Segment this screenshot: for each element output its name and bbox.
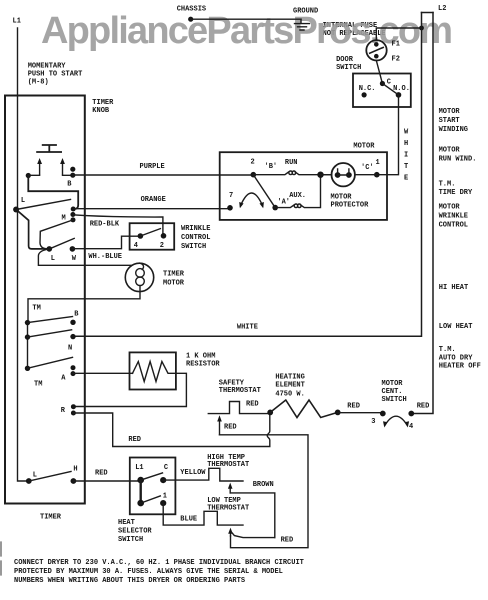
wire TM contact bus xyxy=(27,323,29,369)
svg-text:L1: L1 xyxy=(13,17,21,25)
push-to-start left actuator arrow xyxy=(39,163,41,175)
svg-text:TM: TM xyxy=(34,381,42,389)
svg-text:WH.-BLUE: WH.-BLUE xyxy=(88,253,122,261)
push-to-start contact stubs xyxy=(28,174,73,176)
cent switch terminal 3 dot xyxy=(380,411,386,417)
svg-text:CONTROL: CONTROL xyxy=(439,221,468,229)
wire L junction down to L contact xyxy=(16,210,49,249)
terminal R double dots xyxy=(71,404,76,409)
svg-text:C: C xyxy=(387,79,391,87)
wire red H to heat selector L1 xyxy=(73,480,140,482)
wire brown high temp arrow to low temp node xyxy=(230,493,275,538)
svg-text:MOTOR: MOTOR xyxy=(439,204,461,212)
svg-text:RUN: RUN xyxy=(285,159,298,167)
svg-text:2: 2 xyxy=(251,159,255,167)
svg-text:RED: RED xyxy=(347,403,360,411)
svg-text:H: H xyxy=(73,466,77,474)
motor protector circle xyxy=(332,163,355,186)
svg-text:CONTROL: CONTROL xyxy=(181,234,210,242)
door switch N.O. contact dot xyxy=(396,92,402,98)
node TM dot 1 xyxy=(25,320,30,325)
svg-text:L: L xyxy=(21,197,25,205)
motor terminal A dot xyxy=(272,205,278,211)
svg-text:T.M.: T.M. xyxy=(439,346,456,354)
svg-text:N: N xyxy=(68,345,72,353)
svg-text:WHITE: WHITE xyxy=(237,324,258,332)
svg-text:RED: RED xyxy=(281,537,294,545)
door switch C contact dot xyxy=(380,81,385,86)
terminal W contact dot xyxy=(70,246,76,252)
svg-text:MOTOR: MOTOR xyxy=(439,147,461,155)
wire fuse top to L2 xyxy=(376,28,421,40)
svg-text:RED-BLK: RED-BLK xyxy=(90,221,120,229)
resistor box xyxy=(130,352,176,389)
svg-text:RESISTOR: RESISTOR xyxy=(186,361,220,369)
node chassis junction dot xyxy=(188,17,193,22)
svg-text:AUTO DRY: AUTO DRY xyxy=(439,355,473,363)
svg-text:DOOR: DOOR xyxy=(336,56,354,64)
svg-text:B: B xyxy=(74,311,79,319)
timer motor coil xyxy=(136,269,145,278)
heat selector L1 dot xyxy=(137,477,144,484)
wire purple B to motor xyxy=(73,174,254,176)
svg-text:R: R xyxy=(61,407,66,415)
wire L2 top bracket xyxy=(422,12,434,14)
svg-text:F1: F1 xyxy=(392,41,400,49)
wire yellow C through high temp thermostat xyxy=(163,468,243,481)
motor start switch arc 7-A xyxy=(240,193,262,206)
svg-text:BROWN: BROWN xyxy=(253,481,274,489)
svg-text:TM: TM xyxy=(32,305,40,313)
svg-text:CENT.: CENT. xyxy=(382,388,403,396)
push-to-start right actuator arrow xyxy=(62,163,64,175)
heat selector switch box xyxy=(130,458,176,515)
ground symbol xyxy=(295,19,310,30)
wire protector to terminal 1 xyxy=(355,174,377,176)
terminal B double contact dots xyxy=(70,167,75,172)
svg-text:'A': 'A' xyxy=(277,198,290,206)
svg-text:LOW HEAT: LOW HEAT xyxy=(439,323,473,331)
svg-text:HEAT: HEAT xyxy=(118,519,135,527)
terminal A double dots xyxy=(71,365,76,370)
wire W to wrinkle switch 4 xyxy=(72,236,140,249)
svg-text:RED: RED xyxy=(246,401,259,409)
svg-text:1: 1 xyxy=(376,159,380,167)
svg-text:SWITCH: SWITCH xyxy=(118,536,143,544)
wire orange M to motor 7 xyxy=(73,208,230,210)
heat selector C dot xyxy=(160,477,166,483)
timer motor circle xyxy=(125,263,153,291)
svg-text:CONNECT DRYER TO 230 V.A.C., 6: CONNECT DRYER TO 230 V.A.C., 60 HZ. 1 PH… xyxy=(14,559,304,567)
svg-text:SWITCH: SWITCH xyxy=(181,243,206,251)
svg-text:L: L xyxy=(33,472,37,480)
watermark AppliancePartsPros.com xyxy=(41,10,451,53)
wire fuse to door switch C xyxy=(376,60,382,83)
svg-text:4: 4 xyxy=(409,423,413,431)
motor protector contacts xyxy=(335,172,341,178)
svg-text:I: I xyxy=(404,152,408,160)
node junction dot on L2 xyxy=(419,26,424,31)
svg-text:T.M.: T.M. xyxy=(439,181,456,189)
wrinkle switch terminal 4 dot xyxy=(138,233,144,239)
door switch box xyxy=(353,74,411,108)
wire left contact to M contacts xyxy=(28,176,78,210)
svg-text:N.C.: N.C. xyxy=(359,85,376,93)
svg-text:(M-8): (M-8) xyxy=(28,79,49,87)
timer cam blade L to M xyxy=(16,199,70,209)
wire door switch N.O. down to motor terminal 1 xyxy=(377,95,399,175)
svg-text:RUN WIND.: RUN WIND. xyxy=(439,156,477,164)
svg-text:L1: L1 xyxy=(135,464,143,472)
svg-text:YELLOW: YELLOW xyxy=(180,469,206,477)
node motor junction dot xyxy=(317,172,323,178)
svg-text:SWITCH: SWITCH xyxy=(382,396,407,404)
wire timer motor to TM contacts xyxy=(28,292,140,323)
svg-text:THERMOSTAT: THERMOSTAT xyxy=(219,387,261,395)
timer terminal H dot xyxy=(71,478,77,484)
svg-text:MOTOR: MOTOR xyxy=(331,194,353,202)
terminal N dot xyxy=(70,334,75,339)
wire L1 bus vertical xyxy=(18,28,29,481)
heat selector common bar xyxy=(139,480,141,503)
terminal M triple dots xyxy=(71,207,76,212)
svg-text:F2: F2 xyxy=(392,56,400,64)
fuse F1-F2 circle symbol xyxy=(366,40,386,60)
wire L2 left line (white bus) xyxy=(73,13,422,337)
svg-text:H: H xyxy=(404,140,408,148)
timer cam blade M to L contact xyxy=(40,220,73,249)
wire red-blk M to wrinkle switch 2 xyxy=(73,215,163,236)
heat selector blade L1 to C xyxy=(141,473,163,480)
svg-text:C: C xyxy=(164,464,168,472)
wire R to safety thermostat (red) xyxy=(73,412,269,446)
svg-text:WRINKLE: WRINKLE xyxy=(439,213,468,221)
wire A to resistor xyxy=(73,372,133,374)
svg-text:TIMER: TIMER xyxy=(40,514,62,522)
motor aux winding coil xyxy=(275,175,320,208)
svg-text:KNOB: KNOB xyxy=(92,107,110,115)
scan artifact dashes bottom-left xyxy=(0,542,2,575)
heating element zigzag xyxy=(270,400,338,418)
terminal B dot xyxy=(70,320,75,325)
motor box xyxy=(220,152,387,220)
timer cam blade TM to A xyxy=(28,357,73,368)
svg-text:BLUE: BLUE xyxy=(180,516,197,524)
door switch blade C to N.O. xyxy=(382,84,398,95)
svg-text:AUX.: AUX. xyxy=(289,192,306,200)
svg-text:NUMBERS WHEN WRITING ABOUT THI: NUMBERS WHEN WRITING ABOUT THIS DRYER OR… xyxy=(14,577,245,585)
cent switch terminal 4 dot xyxy=(408,411,414,417)
svg-text:TIMER: TIMER xyxy=(163,271,185,279)
timer cam blade TM to N xyxy=(28,330,72,337)
resistor R1 zigzag xyxy=(73,362,186,407)
svg-text:T: T xyxy=(404,163,408,171)
wire blue 1 through low temp thermostat xyxy=(163,503,243,525)
svg-text:SWITCH: SWITCH xyxy=(336,64,361,72)
svg-text:RED: RED xyxy=(95,470,108,478)
timer blade L to H xyxy=(29,472,71,482)
svg-text:'B': 'B' xyxy=(265,163,278,171)
cent switch actuator arc xyxy=(385,416,407,425)
svg-text:ORANGE: ORANGE xyxy=(141,196,166,204)
wire L contact to timer motor xyxy=(38,249,132,265)
svg-text:A: A xyxy=(61,375,66,383)
timer cam blade from L contact up xyxy=(49,238,74,249)
node heating element right dot xyxy=(335,410,341,416)
node L junction dot xyxy=(13,207,19,213)
svg-text:RED: RED xyxy=(128,436,141,444)
wire L2 right line xyxy=(411,13,433,414)
svg-text:MOTOR: MOTOR xyxy=(382,380,404,388)
motor run winding coil xyxy=(253,172,331,175)
svg-text:PUSH TO START: PUSH TO START xyxy=(28,71,83,79)
heat selector terminal 1 dot xyxy=(160,500,166,506)
motor terminal B dot xyxy=(251,172,257,178)
node L contact dot xyxy=(47,246,53,252)
safety thermostat symbol xyxy=(208,402,270,414)
svg-text:SELECTOR: SELECTOR xyxy=(118,527,152,535)
svg-text:1 K OHM: 1 K OHM xyxy=(186,353,215,361)
svg-text:TIME DRY: TIME DRY xyxy=(439,189,473,197)
svg-text:E: E xyxy=(404,175,408,183)
svg-text:WINDING: WINDING xyxy=(439,126,468,134)
svg-text:3: 3 xyxy=(371,418,375,426)
push-to-start left contact dot xyxy=(26,173,31,178)
wire junction to protector xyxy=(321,174,332,176)
svg-text:RED: RED xyxy=(224,424,237,432)
high temp thermostat actuator arrow xyxy=(229,487,231,493)
svg-text:PURPLE: PURPLE xyxy=(140,163,165,171)
svg-text:ELEMENT: ELEMENT xyxy=(275,382,304,390)
timer cam blade TM to B xyxy=(28,317,73,323)
motor blade B to A xyxy=(253,175,275,208)
timer terminal L dot xyxy=(26,478,32,484)
svg-text:B: B xyxy=(67,181,72,189)
node TM dot 3 xyxy=(25,366,30,371)
svg-text:PROTECTED BY MAXIMUM 30 A. FUS: PROTECTED BY MAXIMUM 30 A. FUSES. ALWAYS… xyxy=(14,568,283,576)
wire safety arrow to bottom loop xyxy=(220,435,309,548)
svg-text:PROTECTOR: PROTECTOR xyxy=(331,202,370,210)
heat selector blade lower xyxy=(141,496,161,503)
safety thermostat actuator arrow xyxy=(219,420,221,435)
svg-text:W: W xyxy=(404,129,409,137)
svg-text:HEATER OFF: HEATER OFF xyxy=(439,363,481,371)
svg-text:RED: RED xyxy=(417,403,430,411)
door switch N.C. contact dot xyxy=(362,92,367,97)
svg-text:N.O.: N.O. xyxy=(393,85,410,93)
wrinkle switch terminal 2 dot xyxy=(161,233,167,239)
wrinkle switch blade xyxy=(140,229,160,236)
motor terminal 1 dot xyxy=(374,172,380,178)
svg-text:MOMENTARY: MOMENTARY xyxy=(28,63,67,71)
svg-text:'C': 'C' xyxy=(361,164,374,172)
wire chassis to ground xyxy=(191,18,301,20)
node TM dot 2 xyxy=(25,334,30,339)
svg-text:4: 4 xyxy=(134,242,138,250)
low temp thermostat actuator arrow xyxy=(230,532,232,536)
wrinkle control switch box xyxy=(130,223,175,250)
motor terminal 7 dot xyxy=(227,205,233,211)
heat selector lower-left dot xyxy=(137,500,144,507)
svg-text:HEATING: HEATING xyxy=(275,374,304,382)
push-to-start button symbol xyxy=(37,145,61,152)
node heating element left dot xyxy=(267,410,273,416)
svg-text:GROUND: GROUND xyxy=(293,7,318,15)
svg-text:M: M xyxy=(62,215,66,223)
svg-text:WRINKLE: WRINKLE xyxy=(181,225,210,233)
svg-text:2: 2 xyxy=(160,242,164,250)
wire heating element to cent switch 3 xyxy=(338,412,383,414)
svg-text:MOTOR: MOTOR xyxy=(353,143,375,151)
svg-text:MOTOR: MOTOR xyxy=(439,108,461,116)
svg-text:START: START xyxy=(439,117,460,125)
svg-text:1: 1 xyxy=(163,493,167,501)
timer knob box xyxy=(5,96,85,504)
svg-text:TIMER: TIMER xyxy=(92,99,114,107)
svg-text:MOTOR: MOTOR xyxy=(163,279,185,287)
svg-text:L: L xyxy=(51,255,55,263)
wire low temp arrow branch to brown node xyxy=(232,533,275,538)
svg-text:7: 7 xyxy=(229,192,233,200)
svg-text:W: W xyxy=(72,255,77,263)
svg-text:CHASSIS: CHASSIS xyxy=(177,5,206,13)
svg-text:L2: L2 xyxy=(438,5,446,13)
svg-text:HI HEAT: HI HEAT xyxy=(439,284,468,292)
svg-text:4750 W.: 4750 W. xyxy=(275,390,304,398)
